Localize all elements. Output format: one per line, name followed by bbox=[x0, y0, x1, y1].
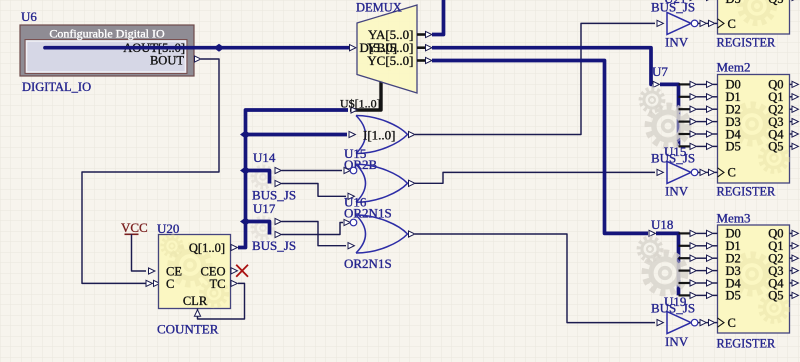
pin label YA[5..0] bbox=[368, 27, 414, 42]
register (top, partially visible) bbox=[718, 0, 790, 34]
U16 lower input arrow bbox=[348, 193, 354, 199]
label INV (U15) bbox=[665, 184, 689, 199]
pin arrow into U7 bbox=[653, 81, 659, 87]
svg-text:Mem3: Mem3 bbox=[717, 211, 751, 226]
bus joiner U17 ghost gear bbox=[253, 218, 274, 239]
counter U20 body bbox=[159, 235, 231, 309]
pin label D[5..0] bbox=[360, 40, 398, 55]
wire U17 out1 to OR2N1S lower input bbox=[282, 222, 347, 246]
svg-text:DEMUX: DEMUX bbox=[356, 1, 402, 15]
label REGISTER (Mem2) bbox=[717, 185, 777, 199]
YC pin stub and arrow bbox=[417, 57, 432, 63]
U19 output arrows to register C bbox=[698, 320, 718, 326]
designator U14 bbox=[253, 150, 276, 165]
bus YA to top edge bbox=[432, 0, 444, 35]
Mem2 Q0 output arrow bbox=[790, 81, 799, 87]
wire third OR output to INV U19 bbox=[415, 234, 655, 323]
svg-text:DIGITAL_IO: DIGITAL_IO bbox=[22, 80, 91, 94]
Mem3 Q3 output arrow bbox=[790, 268, 799, 274]
wire U15 OR output to INV U21 bbox=[415, 23, 655, 134]
Mem2 D4 tap bbox=[679, 131, 718, 137]
svg-text:CLR: CLR bbox=[183, 294, 208, 308]
svg-text:C: C bbox=[728, 17, 736, 31]
top register clock wedge bbox=[718, 19, 725, 28]
demux ghost gear bbox=[379, 45, 403, 69]
Mem2 pin D1 bbox=[726, 90, 741, 104]
U14 output arrows bbox=[275, 167, 281, 186]
svg-text:REGISTER: REGISTER bbox=[717, 185, 777, 199]
Mem3 pin D0 bbox=[726, 227, 741, 241]
Mem2 D3 tap bbox=[679, 119, 718, 125]
third gate inverted input bubble bbox=[344, 219, 357, 226]
bus select S[1..0]: DEMUX S pin down then left bbox=[350, 81, 381, 111]
Mem3 Q1 output arrow bbox=[790, 243, 799, 249]
third gate output arrow bbox=[409, 231, 415, 237]
svg-text:I[1..0]: I[1..0] bbox=[363, 127, 396, 142]
Mem2 pin Q0 bbox=[768, 78, 783, 92]
U20 Q[1..0] output arrow bbox=[231, 244, 237, 250]
Mem2 D0 tap bbox=[679, 81, 718, 87]
U20 pin TC bbox=[210, 277, 226, 291]
U20 pin CE bbox=[166, 264, 182, 278]
Mem3 pin Q2 bbox=[768, 252, 783, 266]
pin arrow on S bus bbox=[351, 107, 357, 113]
svg-text:BUS_JS: BUS_JS bbox=[651, 301, 695, 316]
pin label YC[5..0] bbox=[367, 53, 413, 68]
svg-text:BUS_JS: BUS_JS bbox=[651, 0, 695, 15]
svg-text:U18: U18 bbox=[651, 217, 673, 232]
U19 input arrow bbox=[657, 320, 663, 326]
Mem2 Q2 output arrow bbox=[790, 106, 799, 112]
designator U7 bbox=[652, 64, 668, 79]
wire U14 out2 to OR U16 lower input bbox=[282, 184, 347, 197]
pin label YB[5..0] bbox=[367, 40, 413, 55]
power VCC bbox=[121, 220, 148, 235]
label BUS_JS (U21) bbox=[651, 0, 695, 15]
bus branch to OR gate U15 input I[1..0] bbox=[246, 133, 348, 137]
svg-text:BOUT: BOUT bbox=[150, 53, 184, 67]
designator U21 bbox=[664, 0, 686, 6]
svg-text:U6: U6 bbox=[21, 9, 37, 24]
designator U19 bbox=[664, 294, 686, 309]
bus joiner U14 elbow bbox=[246, 171, 270, 184]
bus YB to Mem2 joiner U7 bbox=[432, 48, 652, 85]
U15 output arrow bbox=[409, 131, 415, 137]
U20 pin CEO bbox=[201, 264, 226, 278]
svg-text:C: C bbox=[166, 277, 174, 291]
pin arrow at I[1..0] bbox=[349, 131, 355, 137]
U21 input arrow bbox=[657, 20, 663, 26]
Mem2 Q3 output arrow bbox=[790, 119, 799, 125]
Mem3 pin Q5 bbox=[768, 289, 783, 303]
Mem3 D1 tap bbox=[679, 243, 718, 249]
svg-text:YC[5..0]: YC[5..0] bbox=[367, 53, 413, 68]
pin arrow into U18 bbox=[649, 230, 655, 236]
Mem2 D2 tap bbox=[679, 106, 718, 112]
bus joiner U14 ghost gear bbox=[253, 167, 274, 188]
svg-text:Q5: Q5 bbox=[768, 289, 783, 303]
svg-text:COUNTER: COUNTER bbox=[157, 322, 219, 337]
bus AOUT[5..0] from U6 to DEMUX D input bbox=[45, 46, 350, 50]
wire TC to CLR bbox=[198, 283, 245, 319]
U15 output arrows to register C bbox=[698, 169, 718, 175]
U7 bus joiner vertical bus bbox=[660, 84, 679, 146]
Mem2 Q5 output arrow bbox=[790, 143, 799, 149]
Mem3 Q2 output arrow bbox=[790, 255, 799, 261]
svg-text:U20: U20 bbox=[157, 221, 179, 236]
designator U15 bbox=[664, 144, 686, 159]
svg-text:D5: D5 bbox=[726, 289, 741, 303]
wire U16 OR output to INV U15 bbox=[415, 172, 655, 183]
wire BOUT from U6 to U20 C input bbox=[82, 59, 219, 283]
wire U14 out1 to OR U16 inverted input bbox=[282, 170, 343, 172]
label Mem3 bbox=[717, 211, 751, 226]
designator U17 bbox=[253, 201, 276, 216]
svg-text:INV: INV bbox=[665, 35, 689, 50]
Mem2 pin C bbox=[728, 166, 736, 180]
label INV (U21) bbox=[665, 35, 689, 50]
U20 pin C bbox=[166, 277, 174, 291]
Mem2 pin D5 bbox=[726, 140, 741, 154]
designator U18 bbox=[651, 217, 673, 232]
svg-text:Mem2: Mem2 bbox=[717, 60, 751, 75]
label OR2N1S (U16) bbox=[344, 206, 392, 221]
CLR input arrow (up) bbox=[194, 310, 200, 316]
net label U$[1..0] bbox=[340, 97, 381, 111]
no-connect X on CEO bbox=[236, 265, 248, 277]
Mem3 Q0 output arrow bbox=[790, 230, 799, 236]
Mem3 pin D1 bbox=[726, 239, 741, 253]
Mem3 D5 tap bbox=[679, 292, 718, 298]
top register Q5 output arrow bbox=[790, 0, 799, 1]
label REGISTER (Mem3) bbox=[717, 337, 777, 351]
svg-text:REGISTER: REGISTER bbox=[717, 337, 777, 351]
YA pin stub and arrow bbox=[417, 31, 432, 37]
svg-text:Q5: Q5 bbox=[768, 140, 783, 154]
Mem2 pin Q4 bbox=[768, 127, 784, 141]
svg-text:D5: D5 bbox=[726, 140, 741, 154]
Mem3 pin D3 bbox=[726, 264, 741, 278]
svg-text:INV: INV bbox=[665, 334, 689, 349]
U20 pin Q[1..0] bbox=[189, 241, 225, 255]
Mem2 clock wedge bbox=[718, 168, 725, 177]
YB pin stub and arrow bbox=[417, 45, 432, 51]
main vertical bus from S bus down to U20 Q[1..0] bbox=[238, 110, 348, 248]
wire VCC to U20 CE bbox=[132, 234, 147, 271]
top register pin D5 (partial) bbox=[726, 0, 741, 6]
U16 inverted input bubble bbox=[344, 167, 357, 174]
top register ghost gear bbox=[740, 0, 774, 23]
svg-text:VCC: VCC bbox=[121, 220, 148, 235]
third gate lower input arrow bbox=[348, 243, 354, 249]
label REGISTER (top) bbox=[717, 36, 777, 50]
Mem2 pin D0 bbox=[726, 78, 741, 92]
U21 output arrows to register C bbox=[698, 20, 718, 26]
U20 ghost gears bbox=[171, 246, 209, 284]
label BUS_JS (U19) bbox=[651, 301, 695, 316]
svg-text:INV: INV bbox=[665, 184, 689, 199]
sheet-symbol U6 Configurable Digital IO bbox=[20, 25, 194, 76]
svg-text:U7: U7 bbox=[652, 64, 668, 79]
Mem2 D5 tap bbox=[679, 143, 718, 149]
U18 ghost gears bbox=[645, 253, 684, 292]
label OR2B bbox=[344, 157, 378, 172]
Mem3 D3 tap bbox=[679, 268, 718, 274]
Mem3 clock wedge bbox=[718, 318, 725, 327]
svg-text:BUS_JS: BUS_JS bbox=[651, 151, 695, 166]
inverter U15 (INV) bbox=[667, 161, 698, 183]
Mem2 pin Q5 bbox=[768, 140, 783, 154]
label BUS_JS (U17) bbox=[252, 238, 296, 253]
Mem3 pin Q3 bbox=[768, 264, 783, 278]
Mem3 pin C bbox=[728, 316, 736, 330]
label Mem2 bbox=[717, 60, 751, 75]
designator U16 bbox=[344, 195, 367, 210]
register Mem3 bbox=[718, 225, 790, 333]
Mem3 Q4 output arrow bbox=[790, 280, 799, 286]
U20 pin CLR bbox=[183, 294, 208, 308]
U20 CEO output arrow bbox=[231, 268, 237, 274]
svg-text:OR2N1S: OR2N1S bbox=[344, 256, 392, 271]
Mem2 Q1 output arrow bbox=[790, 94, 799, 100]
svg-text:Q5: Q5 bbox=[768, 0, 783, 6]
designator U15 (OR gate) bbox=[344, 146, 366, 161]
pin arrow at DEMUX D input bbox=[350, 45, 356, 51]
Mem2 pin D3 bbox=[726, 115, 741, 129]
Mem3 pin Q0 bbox=[768, 227, 783, 241]
svg-text:C: C bbox=[728, 316, 736, 330]
U20 CE input arrow bbox=[149, 268, 155, 274]
OR gate U16 (OR2N1S) bbox=[356, 164, 408, 202]
Mem3 pin Q1 bbox=[768, 239, 783, 253]
Mem3 D0 tap bbox=[679, 230, 718, 236]
top register pin C bbox=[728, 17, 736, 31]
Mem2 pin Q1 bbox=[768, 90, 783, 104]
Mem2 Q4 output arrow bbox=[790, 131, 799, 137]
svg-text:BUS_JS: BUS_JS bbox=[252, 238, 296, 253]
label OR2N1S (third gate) bbox=[344, 256, 392, 271]
OR gate OR2N1S (third) bbox=[356, 215, 408, 253]
junction on AOUT bus bbox=[214, 44, 225, 52]
junction at U17 bbox=[240, 218, 251, 226]
designator U6 bbox=[21, 9, 37, 24]
svg-text:C: C bbox=[728, 166, 736, 180]
pin arrow at U6 BOUT output bbox=[195, 56, 201, 62]
svg-text:D5: D5 bbox=[726, 0, 741, 6]
Mem3 D2 tap bbox=[679, 255, 718, 261]
Mem2 D1 tap bbox=[679, 94, 718, 100]
Mem3 pin D5 bbox=[726, 289, 741, 303]
Mem3 pin D4 bbox=[726, 276, 742, 290]
Mem3 pin D2 bbox=[726, 252, 741, 266]
svg-text:U17: U17 bbox=[253, 201, 276, 216]
top register D5 tap arrows (edge of image) bbox=[690, 0, 713, 1]
Mem3 ghost gears bbox=[733, 255, 771, 293]
U17 output arrows bbox=[275, 218, 281, 237]
U7 ghost gears bbox=[648, 106, 687, 145]
U15 input arrow bbox=[657, 169, 663, 175]
label COUNTER bbox=[157, 322, 219, 337]
U20 C input arrows bbox=[146, 280, 160, 286]
bus YC to Mem3 joiner U18 bbox=[432, 61, 648, 234]
U18 bus joiner vertical bus bbox=[656, 233, 679, 295]
register Mem2 bbox=[718, 75, 790, 184]
svg-text:REGISTER: REGISTER bbox=[717, 36, 777, 50]
svg-text:TC: TC bbox=[210, 277, 226, 291]
top register pin Q5 (partial) bbox=[768, 0, 783, 6]
CLR pin stub bbox=[197, 309, 199, 311]
label DIGITAL_IO bbox=[22, 80, 91, 94]
inverter U21 (INV) bbox=[667, 12, 698, 34]
designator U20 bbox=[157, 221, 179, 236]
svg-text:Configurable Digital IO: Configurable Digital IO bbox=[49, 27, 165, 41]
svg-text:OR2N1S: OR2N1S bbox=[344, 206, 392, 221]
Mem3 D4 tap bbox=[679, 280, 718, 286]
label BUS_JS (U14) bbox=[252, 188, 296, 203]
junction at I[1..0] branch bbox=[240, 131, 251, 139]
U20 TC output arrow bbox=[231, 280, 237, 286]
label BUS_JS (U15) bbox=[651, 151, 695, 166]
Mem2 pin D2 bbox=[726, 103, 741, 117]
label DEMUX bbox=[356, 1, 402, 15]
Mem3 pin Q4 bbox=[768, 276, 784, 290]
Mem2 ghost gears bbox=[733, 105, 771, 143]
inverter U19 (INV) bbox=[667, 312, 698, 334]
Mem3 Q5 output arrow bbox=[790, 292, 799, 298]
svg-text:Q[1..0]: Q[1..0] bbox=[189, 241, 225, 255]
svg-text:U14: U14 bbox=[253, 150, 276, 165]
Mem2 pin Q2 bbox=[768, 103, 783, 117]
demux body bbox=[357, 5, 417, 93]
Mem2 pin D4 bbox=[726, 127, 742, 141]
wire U17 out2 to OR2N1S inverted input bbox=[282, 223, 344, 235]
pin label I[1..0] bbox=[363, 127, 396, 142]
OR gate U15 (OR2B) bbox=[356, 116, 408, 154]
U16 output arrow bbox=[409, 180, 415, 186]
label INV (U19) bbox=[665, 334, 689, 349]
bus joiner U17 elbow bbox=[246, 222, 270, 235]
Mem2 pin Q3 bbox=[768, 115, 783, 129]
junction at U14 bbox=[240, 167, 251, 175]
